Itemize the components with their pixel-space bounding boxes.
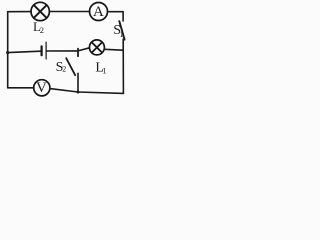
wire top right segment xyxy=(108,11,124,13)
svg-text:A: A xyxy=(93,4,104,20)
svg-text:V: V xyxy=(36,80,47,96)
switch S1 lower post / wire right edge xyxy=(122,39,124,93)
switch S2 blade xyxy=(66,58,75,75)
wire top left segment xyxy=(8,11,32,13)
svg-text:1: 1 xyxy=(120,29,124,39)
wire junction to lamp L1 xyxy=(78,48,90,51)
node junction tick at S2 branch xyxy=(77,49,79,57)
svg-text:2: 2 xyxy=(40,25,44,35)
battery negative plate (short thick) xyxy=(40,46,42,55)
wire middle left segment xyxy=(8,51,41,52)
lamp L2 xyxy=(31,2,49,20)
ammeter A xyxy=(90,3,108,21)
switch S1 blade xyxy=(119,21,124,39)
wire bottom left segment xyxy=(8,87,34,89)
wire left edge xyxy=(7,12,9,88)
wire bottom right segment (sloping) xyxy=(50,89,124,94)
battery positive plate (long thin) xyxy=(45,42,47,59)
node left middle junction xyxy=(6,51,9,54)
lamp L1 xyxy=(89,40,104,55)
voltmeter V xyxy=(34,80,50,96)
wire lamp L1 to right edge xyxy=(104,48,123,51)
switch S2 lower post xyxy=(77,73,79,92)
wire middle segment battery to junction xyxy=(47,50,78,52)
switch S1 upper post xyxy=(122,12,124,21)
svg-text:2: 2 xyxy=(62,64,66,73)
node S2 to bottom wire junction xyxy=(77,91,80,94)
wire top middle segment xyxy=(49,11,89,13)
svg-text:1: 1 xyxy=(102,65,106,75)
